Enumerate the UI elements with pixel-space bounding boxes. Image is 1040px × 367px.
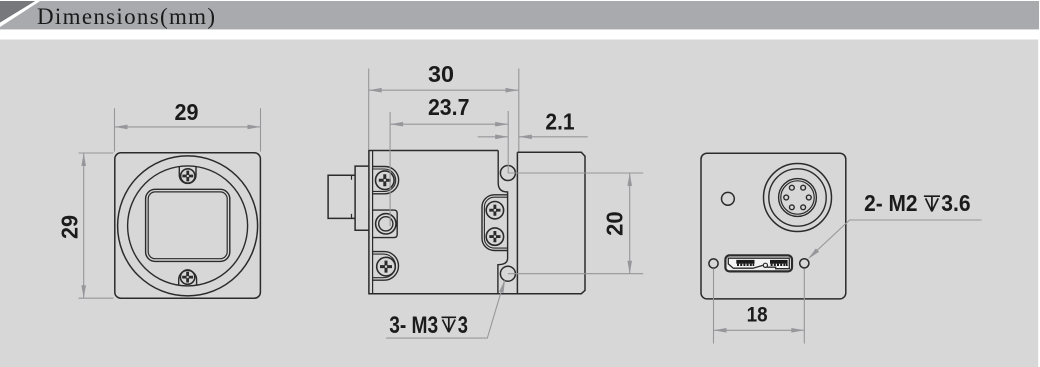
svg-text:3: 3 — [458, 312, 468, 339]
lens ring inner circle — [128, 166, 248, 286]
lens ring outer circle — [118, 156, 258, 296]
usb inner shape — [728, 258, 789, 269]
svg-text:3- M3: 3- M3 — [389, 312, 438, 339]
bottom-left screw — [377, 257, 396, 276]
dim 29 arrows — [115, 125, 128, 130]
front body square — [115, 153, 261, 298]
svg-text:2- M2: 2- M2 — [864, 190, 917, 216]
svg-text:18: 18 — [747, 304, 768, 327]
top-left screw — [376, 171, 395, 190]
dim 20 arrows — [627, 173, 632, 186]
dim 23.7 extension left — [389, 112, 391, 226]
connector flange — [355, 166, 369, 230]
leader M3 arrow — [499, 280, 505, 293]
label M3 leader — [386, 281, 504, 339]
dim 29 top line — [115, 126, 261, 128]
dim 23.7 line — [390, 123, 508, 125]
dim 29 left extension lines — [79, 153, 114, 298]
dim 23.7 arrows — [390, 122, 403, 127]
M3 hole top — [500, 166, 515, 181]
bottom screw circle — [180, 270, 194, 284]
svg-text:30: 30 — [428, 61, 454, 87]
hirose connector circle 2 — [769, 169, 826, 226]
side body left inner line — [372, 151, 374, 294]
dim 18 extension lines — [714, 269, 805, 344]
label M2 leader — [810, 220, 982, 258]
dim 29 top extension lines — [115, 108, 261, 151]
back body square — [701, 153, 846, 299]
dim 20 extension lines — [508, 173, 643, 274]
dim 2.1 arrows — [495, 135, 508, 140]
svg-text:20: 20 — [602, 211, 628, 236]
side body outline — [369, 151, 585, 294]
M2 hole left — [709, 259, 718, 268]
bottom screw pocket — [179, 270, 197, 285]
aperture outer rounded square — [146, 189, 230, 261]
dim 20 line — [629, 173, 631, 274]
M3 hole bottom — [500, 266, 515, 281]
stadium screw 2 — [486, 228, 503, 245]
dim 30 arrows — [369, 88, 382, 93]
svg-text:29: 29 — [175, 99, 199, 125]
header bar — [0, 1, 1039, 29]
header dark corner triangle — [0, 1, 35, 23]
depth symbol M2 — [924, 196, 940, 211]
screw center dots — [187, 175, 496, 278]
top screw cross — [182, 171, 193, 182]
stadium plate — [482, 195, 508, 251]
dim 23.7 extension right — [507, 111, 509, 173]
dim 18 arrows — [714, 328, 727, 333]
bottom-left screw pocket — [373, 252, 399, 281]
side body right edge profile — [498, 151, 508, 294]
top screw circle — [181, 169, 195, 183]
M2 hole right — [800, 259, 809, 268]
usb connector outline — [725, 255, 792, 271]
lens lock circle outer — [376, 214, 396, 234]
connector plug lip — [351, 175, 353, 218]
led hole — [722, 192, 735, 205]
header white diagonal stripe — [0, 1, 40, 27]
usb center bump — [763, 263, 767, 267]
svg-text:29: 29 — [56, 215, 82, 239]
bottom screw cross — [182, 272, 193, 283]
hirose connector circle 1 — [764, 164, 832, 232]
usb pin block left — [736, 260, 787, 266]
barrel front face line — [516, 152, 518, 294]
svg-text:23.7: 23.7 — [428, 94, 470, 120]
dim 29 left line — [83, 153, 85, 298]
svg-text:3.6: 3.6 — [941, 190, 970, 216]
depth symbol M3 — [442, 196, 941, 332]
lens lock circle inner — [379, 217, 393, 231]
dim 2.1 lines — [478, 136, 588, 138]
stadium screw 1 — [486, 202, 503, 219]
connector plug — [328, 175, 355, 218]
aperture inner rounded square — [148, 192, 227, 259]
svg-text:Dimensions(mm): Dimensions(mm) — [37, 4, 215, 29]
hirose connector circle 4 — [781, 181, 814, 214]
lens lock block — [373, 210, 398, 238]
hirose pins — [784, 185, 811, 209]
top screw pocket — [179, 167, 196, 184]
svg-text:2.1: 2.1 — [545, 109, 574, 135]
dim 30 extension lines — [369, 69, 519, 152]
hirose connector circle 3 — [779, 179, 817, 217]
dim 30 line — [369, 89, 519, 91]
leader M2 arrow — [808, 248, 819, 259]
dim 18 line — [714, 329, 805, 331]
top-left screw pocket — [373, 167, 399, 194]
arrowheads — [81, 88, 819, 333]
